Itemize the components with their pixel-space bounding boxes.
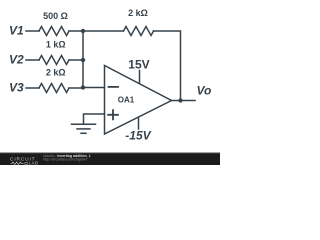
ground bar 2 xyxy=(77,128,90,130)
resistor R1 500 Ohm zigzag xyxy=(39,27,69,36)
svg-text:500 Ω: 500 Ω xyxy=(43,11,68,21)
svg-text:-15V: -15V xyxy=(125,129,151,143)
svg-text:V2: V2 xyxy=(9,53,24,67)
CircuitLab logo resistor zigzag xyxy=(11,162,24,165)
svg-text:LAB: LAB xyxy=(29,161,39,165)
svg-text:2 kΩ: 2 kΩ xyxy=(128,8,148,18)
wire V2 to R2 xyxy=(26,59,39,61)
wire R2 to summing bus xyxy=(69,59,83,61)
svg-text:OA1: OA1 xyxy=(118,96,135,105)
wire R3 to summing bus xyxy=(69,87,83,89)
wire R1 to summing node xyxy=(69,30,83,32)
wire feedback top from summing node to Rf xyxy=(83,30,124,32)
svg-text:V1: V1 xyxy=(9,24,24,38)
wire summing node to op-amp inverting input xyxy=(83,87,105,89)
junction node dot V3/inverting input xyxy=(81,85,85,89)
op-amp positive supply stub 15V xyxy=(139,71,141,84)
wire op-amp output to Vo xyxy=(172,100,196,102)
svg-text:15V: 15V xyxy=(128,58,149,72)
footer bar xyxy=(0,153,220,166)
wire V3 to R3 xyxy=(26,87,39,89)
wire ground to op-amp non-inverting input xyxy=(84,114,105,123)
svg-text:V3: V3 xyxy=(9,81,24,95)
junction node dot output xyxy=(178,98,182,102)
wire Rf to output node xyxy=(154,31,181,101)
wire V1 to R1 xyxy=(26,30,39,32)
op-amp minus sign xyxy=(109,86,119,88)
wire summing bus vertical xyxy=(82,31,84,88)
svg-text:Vo: Vo xyxy=(197,84,212,98)
resistor R3 2 kOhm zigzag xyxy=(39,84,69,93)
resistor Rf 2 kOhm zigzag xyxy=(124,27,154,36)
ground bar 3 xyxy=(81,132,86,134)
junction node dot V2 xyxy=(81,58,85,62)
CircuitLab logo component box xyxy=(25,163,28,165)
op-amp plus sign xyxy=(108,110,118,119)
svg-text:2 kΩ: 2 kΩ xyxy=(46,68,66,78)
op-amp U1 triangle xyxy=(105,66,172,135)
resistor R2 1 kOhm zigzag xyxy=(39,56,69,65)
ground bar 1 xyxy=(72,123,96,125)
svg-text:1 kΩ: 1 kΩ xyxy=(46,40,66,50)
op-amp negative supply stub -15V xyxy=(138,118,140,130)
svg-text:http://circuitlab.com/c9gbb47: http://circuitlab.com/c9gbb47 xyxy=(43,158,88,162)
junction node dot V1/feedback xyxy=(81,29,85,33)
